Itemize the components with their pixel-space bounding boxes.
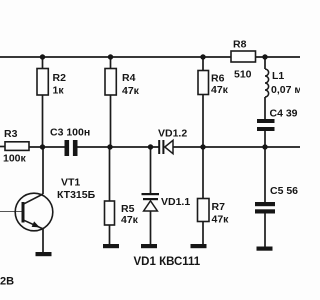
- node top R6: [200, 54, 205, 59]
- node top R2: [40, 54, 45, 59]
- svg-text:R2: R2: [53, 72, 67, 84]
- resistor R6: [198, 71, 229, 97]
- svg-text:R8: R8: [233, 39, 247, 51]
- wire top rail left segment: [0, 56, 231, 58]
- svg-text:R4: R4: [122, 72, 136, 84]
- wire C5 to ground: [264, 214, 266, 248]
- ground R5: [103, 244, 119, 248]
- wire R7 top lead: [202, 147, 204, 199]
- wire R7 bottom lead: [202, 222, 204, 246]
- svg-text:VT1: VT1: [61, 177, 80, 189]
- svg-text:R3: R3: [4, 128, 18, 140]
- svg-text:L1: L1: [272, 70, 284, 82]
- wire R4 column top: [110, 57, 112, 69]
- wire top rail right segment: [256, 56, 301, 58]
- svg-text:R7: R7: [212, 201, 226, 213]
- capacitor C3: [50, 127, 90, 157]
- svg-text:47к: 47к: [122, 85, 140, 97]
- resistor R2: [37, 69, 66, 97]
- svg-text:2В: 2В: [0, 276, 14, 288]
- svg-text:47к: 47к: [211, 84, 229, 96]
- inductor L1: [265, 69, 302, 97]
- wire middle rail R3 to C3: [29, 146, 65, 148]
- ground R7: [191, 244, 207, 248]
- svg-text:C4 39: C4 39: [270, 108, 298, 120]
- resistor R4: [105, 69, 140, 98]
- svg-text:47к: 47к: [212, 214, 230, 226]
- resistor R3: [3, 128, 29, 165]
- svg-text:VD1.1: VD1.1: [161, 196, 190, 208]
- node top L1: [262, 54, 267, 59]
- node mid R6: [200, 144, 205, 149]
- svg-text:VD1 КВС111: VD1 КВС111: [134, 256, 201, 268]
- transistor VT1: [15, 177, 95, 231]
- svg-text:C5 56: C5 56: [270, 185, 298, 197]
- svg-text:VD1.2: VD1.2: [158, 128, 187, 140]
- wire R2 column bottom: [42, 95, 44, 147]
- resistor R8: [231, 39, 256, 81]
- wire VD1.1 top lead: [150, 147, 152, 193]
- svg-text:1к: 1к: [53, 85, 65, 97]
- wire R2 column top: [42, 57, 44, 69]
- ground C5: [257, 247, 273, 251]
- wire R5 top lead: [109, 147, 111, 201]
- wire VT1 emitter lead: [42, 229, 44, 252]
- resistor R5: [105, 201, 139, 226]
- wire VT1 collector lead: [42, 147, 44, 194]
- node mid VD1.1: [148, 144, 153, 149]
- node mid C4: [262, 144, 267, 149]
- ground VD1.1: [141, 244, 157, 248]
- svg-text:100к: 100к: [3, 153, 27, 165]
- ground VT1 emitter: [36, 252, 52, 256]
- wire middle rail to C5: [264, 147, 266, 202]
- wire R6 column top: [202, 57, 204, 71]
- svg-text:C3 100н: C3 100н: [50, 127, 90, 139]
- wire VD1.1 bottom lead: [150, 211, 152, 245]
- varicap VD1.1: [142, 193, 191, 211]
- svg-text:КТ315Б: КТ315Б: [57, 189, 96, 201]
- node mid R2: [40, 144, 45, 149]
- node top R4: [108, 54, 113, 59]
- wire R4 column bottom: [110, 95, 112, 147]
- varicap VD1.2: [158, 128, 187, 155]
- node mid R4: [107, 144, 112, 149]
- wire middle rail VD1.2 to right edge: [173, 146, 300, 148]
- wire L1 top lead: [264, 57, 266, 69]
- capacitor C4: [257, 108, 298, 132]
- wire R3 left lead: [0, 146, 5, 148]
- svg-text:R6: R6: [211, 73, 225, 85]
- wire middle rail C3 to VD1.2: [78, 146, 159, 148]
- svg-text:47к: 47к: [121, 214, 139, 226]
- svg-text:510: 510: [234, 69, 252, 81]
- wire C4 to middle rail: [264, 131, 266, 147]
- resistor R7: [198, 199, 230, 226]
- wire R5 bottom lead: [109, 225, 111, 245]
- capacitor C5: [255, 185, 298, 214]
- svg-text:0,07 м: 0,07 м: [271, 84, 300, 96]
- wire L1 to C4: [264, 97, 266, 119]
- wire VT1 base lead: [0, 211, 22, 213]
- wire R6 column bottom: [202, 95, 204, 148]
